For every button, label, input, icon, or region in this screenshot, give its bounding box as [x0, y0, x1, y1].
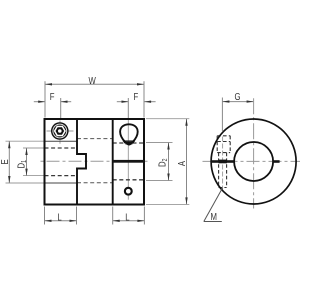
dimension F right — [117, 98, 156, 118]
left view: horizontal centerline — [41, 160, 150, 162]
left view: clamp screw hole (teardrop) in right hub — [120, 124, 138, 144]
left view: right hub hole axis vertical centerline — [127, 120, 129, 200]
left view: screw axis centerline vertical — [59, 121, 61, 144]
left view: coupling body outline — [45, 119, 145, 205]
svg-text:L: L — [57, 211, 61, 222]
right view: slit left bar — [211, 160, 234, 163]
left view: left hub counterbore lines (E) — [45, 141, 78, 183]
left view: hub/sleeve divider with tab — [77, 119, 86, 205]
left view: slit in right hub — [113, 160, 144, 163]
right view: slit/screw intersection thickening — [219, 160, 227, 164]
svg-text:E: E — [0, 159, 10, 164]
dimension W — [45, 81, 144, 117]
right view: slit right mark — [272, 160, 279, 163]
svg-text:F: F — [50, 91, 55, 102]
right view: clamp screw axis centerline — [222, 137, 224, 191]
svg-text:G: G — [234, 91, 240, 102]
right view: vertical centerline — [253, 98, 255, 208]
left view: screw crosshair horizontal — [47, 130, 74, 132]
right view: clamp screw thread hidden lines — [219, 153, 227, 188]
dimension D2 extension lines — [146, 143, 173, 181]
dimension D2 — [168, 143, 170, 181]
left view: clamp screw cross hole (small circle) — [125, 188, 132, 195]
right view: horizontal centerline — [203, 160, 301, 162]
left view: socket head cap screw — [51, 122, 69, 140]
dimension D1 — [26, 148, 28, 176]
label M with leader — [204, 188, 223, 222]
dimension E — [8, 141, 10, 183]
left view: right hub bore hidden lines (D2) — [113, 143, 144, 180]
dimension D1 extension lines — [23, 148, 45, 176]
dimension A — [186, 119, 188, 205]
dimension A extension lines — [146, 119, 189, 205]
dimension F left — [34, 98, 71, 118]
svg-text:L: L — [125, 211, 129, 222]
right view: bore circle — [234, 142, 273, 181]
dimension G — [222, 98, 253, 132]
dimension E extension lines — [6, 141, 45, 183]
svg-text:F: F — [134, 91, 139, 102]
right view: clamp screw counterbore hidden lines — [217, 136, 230, 153]
svg-text:W: W — [89, 75, 97, 86]
svg-text:A: A — [176, 160, 187, 166]
left view: left hub bore hidden lines (D1) — [45, 148, 78, 176]
right view: outer circle — [211, 119, 296, 204]
dimension L right — [113, 207, 145, 225]
left view: middle sleeve hidden lines — [77, 139, 113, 183]
svg-text:M: M — [210, 211, 216, 222]
dimension L left — [45, 207, 77, 225]
left view: sleeve/right-hub divider — [112, 119, 114, 205]
